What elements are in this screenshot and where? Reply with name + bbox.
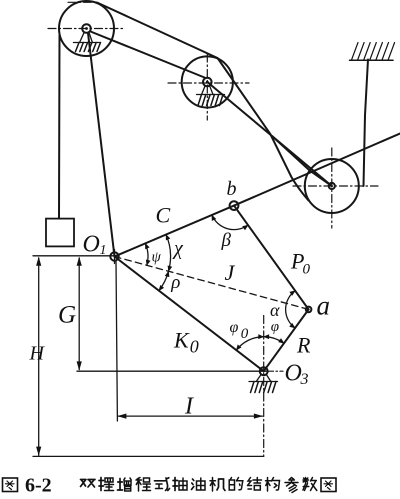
char ji machine — [210, 478, 225, 492]
pulley P2 centerline horizontal dash-dot — [168, 82, 249, 84]
svg-text:6-2: 6-2 — [25, 475, 52, 497]
char gou structure — [266, 478, 280, 492]
extension line top (O1 level) — [33, 255, 119, 257]
pulley P2 pivot legs — [202, 86, 213, 95]
caption CJK approx — [81, 478, 337, 493]
pulley P1 hub — [82, 24, 91, 33]
dashed line J O1 to a — [115, 257, 309, 310]
svg-text:a: a — [317, 291, 331, 321]
pulley P1 ground hatch — [76, 43, 101, 52]
svg-text:0: 0 — [241, 326, 249, 342]
char you oil — [192, 478, 206, 490]
wire belt P1 to P2 top tangent — [97, 3, 218, 59]
wire rope P1 to counterweight — [58, 35, 61, 219]
pulley P3 centerline vertical dash-dot — [331, 148, 333, 228]
char zeng increase — [118, 478, 132, 491]
svg-text:H: H — [29, 343, 46, 365]
pulley P1 centerline dash-dot — [48, 28, 123, 30]
svg-text:C: C — [156, 203, 171, 228]
ceiling hatch strokes — [352, 43, 395, 61]
char cheng extent — [136, 478, 151, 492]
node O1 pivot — [110, 252, 118, 260]
char chou draw out — [173, 478, 187, 491]
pulley P2 ground hatch — [198, 95, 223, 106]
svg-text:G: G — [58, 302, 76, 329]
pulley P3 hub — [329, 183, 335, 189]
char jie tie — [248, 478, 262, 491]
char shi style — [155, 478, 170, 491]
svg-text:0: 0 — [190, 336, 199, 356]
O3 pivot legs — [256, 374, 271, 381]
pulley P1 pivot legs — [80, 32, 93, 42]
svg-text:β: β — [221, 230, 232, 251]
O3 vertical centerline dash-dot — [263, 316, 265, 457]
angle arc chi at O1 — [166, 235, 170, 272]
char shu number — [303, 478, 317, 491]
pulley P1 top short dash — [68, 1, 96, 3]
pulley P3 centerline horizontal dash-dot — [293, 185, 378, 187]
wire link lower edge into P3 hub — [272, 136, 332, 186]
svg-text:I: I — [184, 394, 194, 420]
node b joint — [230, 201, 239, 210]
dimension I line — [118, 415, 263, 417]
svg-text:O: O — [83, 232, 100, 258]
svg-text:0: 0 — [303, 262, 311, 278]
pulley P2 ground baseline — [197, 94, 225, 96]
link P0 b to a — [234, 206, 309, 310]
O3 label leader dash-dot — [269, 370, 284, 372]
node O3 pivot — [260, 367, 268, 375]
wire link P2 center to P3 center — [207, 82, 331, 186]
node a joint — [306, 307, 312, 313]
svg-text:α: α — [270, 300, 280, 320]
svg-text:1: 1 — [100, 243, 107, 258]
pulley P2 centerline vertical dash-dot — [206, 54, 208, 120]
ceiling hatch baseline top right — [350, 59, 394, 61]
svg-text:ρ: ρ — [170, 272, 180, 293]
svg-text:φ: φ — [271, 319, 279, 335]
angle arc psi at O1 — [145, 243, 148, 265]
svg-text:ψ: ψ — [152, 250, 162, 266]
wire P1 center to P2 — [91, 32, 205, 78]
char shuang — [81, 480, 96, 488]
svg-text:O: O — [285, 361, 302, 387]
svg-text:K: K — [173, 328, 190, 353]
extension line mid (O3 level) — [77, 370, 268, 372]
svg-text:φ: φ — [230, 319, 239, 336]
svg-text:R: R — [296, 333, 311, 358]
pulley P1 ground baseline — [74, 42, 100, 44]
caption — [3, 478, 18, 492]
angle arc phi0 at O3 — [236, 337, 263, 351]
wire belt P2 to P3 — [218, 58, 309, 201]
angle arc rho at O1 — [159, 271, 169, 290]
svg-text:J: J — [225, 260, 236, 285]
O3 ground hatch — [251, 382, 277, 393]
angle arc alpha at a — [286, 291, 296, 328]
counterweight box — [46, 219, 74, 247]
link K0 O1 to O3 — [115, 257, 264, 372]
caption char tu (figure) — [3, 478, 18, 492]
pulley P3 rim — [305, 159, 359, 213]
wire hanger rod ceiling to P3 — [364, 60, 369, 187]
link R a to O3 — [264, 309, 309, 371]
extension line bottom — [33, 455, 264, 457]
extension line below O1 vertical — [116, 261, 117, 421]
O3 ground baseline — [249, 381, 278, 383]
svg-text:χ: χ — [172, 238, 184, 260]
pulley P1 rim — [59, 1, 114, 56]
char tu figure again — [321, 478, 336, 492]
svg-text:3: 3 — [300, 371, 309, 388]
wire rope P1 to O1 — [88, 33, 115, 257]
pulley P2 rim — [182, 56, 233, 107]
angle arc phi at O3 — [264, 337, 284, 344]
char can parameter — [285, 478, 298, 493]
char de possessive — [229, 478, 243, 491]
char bai3 swing — [99, 478, 114, 491]
dimension G line — [78, 258, 80, 370]
link C O1 to b extended to right edge — [115, 134, 400, 257]
pulley P2 hub — [203, 78, 212, 87]
dimension H line — [38, 258, 40, 456]
angle arc beta at b — [212, 215, 248, 230]
svg-text:b: b — [227, 178, 237, 200]
